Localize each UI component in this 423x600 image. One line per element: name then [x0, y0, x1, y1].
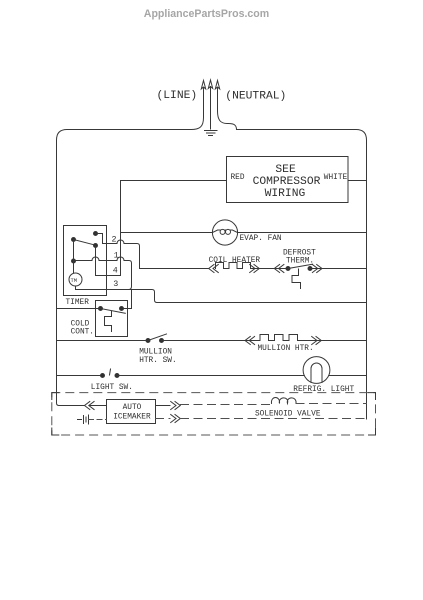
refrigerator light bulb — [303, 357, 330, 384]
svg-text:DEFROST: DEFROST — [283, 249, 316, 257]
svg-text:SEE: SEE — [275, 164, 296, 176]
svg-text:THERM.: THERM. — [286, 257, 314, 265]
dashed wire solenoid to neutral bus — [296, 403, 367, 405]
cold control arm — [101, 309, 126, 314]
svg-text:WHITE: WHITE — [324, 174, 348, 182]
plug prong left (line) — [201, 81, 205, 89]
wire: right bus (NEUTRAL) vertical — [366, 140, 368, 419]
connector arrows out lower — [171, 415, 181, 423]
svg-text:RED: RED — [231, 174, 245, 182]
svg-text:COIL HEATER: COIL HEATER — [209, 257, 261, 265]
wire contact B to D — [73, 240, 75, 262]
dashed optional equipment box — [52, 393, 376, 435]
wire defrost therm to neutral bus — [310, 268, 367, 270]
wire: line prong down-left to left bus — [57, 88, 204, 141]
svg-text:AUTO: AUTO — [123, 404, 142, 412]
svg-text:ICEMAKER: ICEMAKER — [113, 414, 151, 422]
wire terminal 2 row to coil heater drop — [103, 240, 140, 268]
wire contact D to TM — [73, 261, 75, 273]
svg-text:MULLION HTR.: MULLION HTR. — [258, 345, 314, 353]
light switch contacts — [101, 374, 105, 378]
wire: left bus (LINE) vertical — [57, 140, 60, 406]
timer switch arm B-C — [74, 240, 96, 246]
svg-text:WIRING: WIRING — [265, 188, 306, 200]
svg-text:4: 4 — [113, 266, 118, 276]
svg-text:AppliancePartsPros.com: AppliancePartsPros.com — [144, 8, 269, 20]
svg-text:TIMER: TIMER — [66, 299, 90, 307]
svg-text:HTR. SW.: HTR. SW. — [139, 357, 176, 365]
defrost thermostat contacts — [286, 267, 290, 271]
timer contact B — [72, 238, 76, 242]
wire terminal 3 row to step-down — [129, 290, 367, 303]
light switch plunger — [110, 369, 111, 375]
svg-text:MULLION: MULLION — [139, 348, 172, 356]
timer box — [64, 226, 107, 296]
timer contact C — [94, 244, 98, 248]
water inlet connector symbol — [78, 415, 89, 424]
cold control bellows linkage — [105, 311, 112, 332]
svg-text:SOLENOID VALVE: SOLENOID VALVE — [255, 410, 321, 418]
connector arrows out of defrost therm — [312, 265, 322, 273]
timer contact D — [72, 259, 76, 263]
wire: ground prong shaft — [210, 87, 212, 130]
svg-text:EVAP. FAN: EVAP. FAN — [240, 235, 282, 243]
defrost thermostat arm — [288, 264, 313, 268]
mullion heater switch contacts — [146, 339, 150, 343]
solenoid valve coil L1 — [271, 398, 296, 404]
svg-text:COLD: COLD — [71, 320, 90, 328]
wire to icemaker box — [90, 405, 107, 407]
wire red lead from compressor — [121, 180, 227, 182]
wire: neutral prong down-right to right bus — [218, 88, 367, 141]
svg-text:TM: TM — [71, 278, 77, 284]
svg-text:(NEUTRAL): (NEUTRAL) — [225, 90, 286, 102]
cold control box — [96, 301, 128, 337]
svg-text:1: 1 — [114, 251, 119, 261]
wire contact C down to terminal 4 row — [95, 246, 97, 276]
connector arrows into defrost therm — [274, 265, 284, 273]
ground symbol — [205, 131, 218, 136]
mullion heater switch arm — [148, 334, 167, 341]
timer motor TM — [69, 273, 82, 286]
mullion heater resistor — [260, 335, 303, 341]
wire icemaker out upper — [156, 405, 171, 407]
dashed wire connector to icemaker lower — [89, 419, 107, 421]
wire junction down to cold control — [124, 290, 132, 309]
dashed wire to solenoid valve — [181, 404, 272, 406]
wire coil heater row — [140, 268, 209, 270]
svg-text:CONT.: CONT. — [71, 329, 94, 337]
wire light switch row from line bus — [57, 375, 103, 377]
connector arrows into coil heater — [209, 265, 219, 273]
wire between coil heater and defrost therm — [254, 268, 289, 270]
connector arrows out upper — [171, 402, 181, 410]
wire light switch to refrig light — [117, 375, 304, 377]
dashed wire lower row to neutral bus — [181, 418, 367, 420]
defrost therm capillary — [292, 269, 301, 289]
wire mullion switch to heater — [162, 340, 261, 342]
wire icemaker out lower — [156, 418, 171, 420]
connector arrows out of coil heater — [250, 265, 260, 273]
connector arrows into mullion heater — [245, 337, 255, 345]
connector arrows into icemaker — [85, 402, 95, 410]
plug prong right (neutral) — [215, 81, 219, 89]
wire TM to terminal 3 row — [76, 286, 129, 290]
wire evap fan row right to neutral bus — [238, 232, 367, 234]
wire evap fan row left — [121, 232, 213, 234]
compressor box U1 — [227, 157, 349, 203]
connector arrows out of mullion heater — [312, 337, 322, 345]
svg-text:3: 3 — [113, 279, 118, 289]
timer contact A — [94, 232, 98, 236]
cold control contacts — [99, 307, 103, 311]
wire red vertical to timer terminal 4 — [120, 181, 122, 276]
wire line bus to icemaker — [59, 405, 84, 407]
wire terminal 4 row — [96, 275, 121, 277]
wire white lead to neutral bus — [348, 180, 367, 182]
svg-text:LIGHT SW.: LIGHT SW. — [91, 384, 133, 392]
wire line bus to cold control — [57, 308, 101, 310]
wire mullion heater to neutral bus — [303, 340, 367, 342]
evap fan motor B1 — [212, 220, 237, 245]
wire terminal 1 row (contact D out, hops) — [74, 257, 132, 290]
svg-text:(LINE): (LINE) — [157, 90, 198, 102]
wire contact A hook to terminal 2 — [96, 234, 103, 244]
coil heater resistor — [216, 263, 254, 269]
plug prong middle (ground) — [208, 80, 212, 88]
wire refrig light to neutral bus — [329, 375, 367, 377]
auto icemaker box — [107, 400, 156, 424]
wire mullion switch row from line bus — [57, 340, 148, 342]
svg-text:COMPRESSOR: COMPRESSOR — [253, 176, 321, 188]
